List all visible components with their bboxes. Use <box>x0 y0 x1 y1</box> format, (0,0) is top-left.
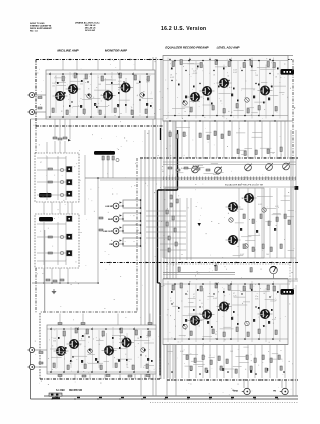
svg-text:47: 47 <box>170 301 172 303</box>
svg-text:100: 100 <box>52 86 55 88</box>
svg-text:16.2 U.S. Version: 16.2 U.S. Version <box>161 26 206 32</box>
svg-text:47: 47 <box>40 162 42 164</box>
svg-text:100: 100 <box>266 254 269 256</box>
svg-text:MONITOR AMP: MONITOR AMP <box>105 49 128 53</box>
svg-text:S-1 REC: S-1 REC <box>56 390 65 392</box>
svg-text:REC/PB SW: REC/PB SW <box>69 390 83 392</box>
svg-text:220: 220 <box>80 84 83 86</box>
svg-text:0.047: 0.047 <box>213 298 217 300</box>
svg-text:EQUALIZER RECORD PREAMP: EQUALIZER RECORD PREAMP <box>165 46 208 50</box>
svg-text:LINE IN: LINE IN <box>105 206 112 208</box>
svg-text:560: 560 <box>136 83 139 85</box>
svg-text:REC: REC <box>108 219 113 221</box>
svg-text:0.022: 0.022 <box>258 204 262 206</box>
svg-text:LEVEL ADJ AMP: LEVEL ADJ AMP <box>217 46 240 50</box>
svg-text:MIC/LINE AMP: MIC/LINE AMP <box>57 49 79 53</box>
svg-text:0.022: 0.022 <box>193 73 197 75</box>
svg-text:0.047: 0.047 <box>233 72 237 74</box>
svg-text:SCH 2-AF: SCH 2-AF <box>85 29 96 32</box>
svg-text:LINE OUT: LINE OUT <box>103 231 113 233</box>
svg-text:NO. 1-6: NO. 1-6 <box>30 31 38 33</box>
svg-text:0.047: 0.047 <box>119 339 123 341</box>
svg-text:0.022: 0.022 <box>170 77 174 79</box>
svg-text:EQUALIZER AMP REC/PB DOLBY N: EQUALIZER AMP REC/PB DOLBY NR <box>225 184 264 187</box>
